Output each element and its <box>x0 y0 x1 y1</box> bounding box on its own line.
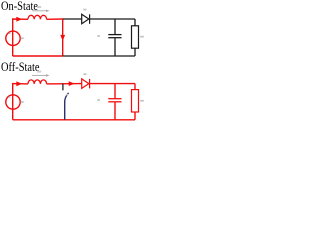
wire capacitor branch upper (black) <box>114 19 116 34</box>
inductor L1 (bottom) <box>28 80 47 84</box>
capacitor C1 <box>108 35 121 38</box>
wire inductor to diode (red) <box>47 83 82 85</box>
wire right branch lower (black) <box>134 48 136 56</box>
label Load (bottom resistor) <box>140 100 144 102</box>
wire inductor to node (red) <box>47 18 64 20</box>
switch closed S1 (red branch) <box>62 19 64 56</box>
title On-State <box>1 0 38 12</box>
label D (top diode) <box>83 9 86 11</box>
label S (bottom switch) <box>66 94 68 96</box>
current arrow i right (top) <box>16 17 22 22</box>
current arrow before diode (bottom) <box>69 81 75 86</box>
wire right branch upper (black) <box>134 19 136 26</box>
current arrow down (switch) <box>60 35 65 41</box>
label D (bottom diode) <box>83 73 86 75</box>
resistor Rload (top) <box>132 26 139 48</box>
wire bottom black (node to resistor) <box>63 55 135 57</box>
label plus of source V1 <box>9 32 11 34</box>
wire capacitor branch lower (black) <box>114 38 116 56</box>
wire node to diode anode (black) <box>63 18 82 20</box>
wire capacitor branch upper (red) <box>114 84 116 99</box>
switch open S1 blade (navy) <box>65 93 69 120</box>
label C (top cap) <box>97 35 100 37</box>
switch open S1 upper lead (black) <box>62 84 64 91</box>
label Load (top resistor) <box>140 36 144 38</box>
wire capacitor branch lower (red) <box>114 102 116 120</box>
voltage source V1 (bottom) <box>6 95 20 109</box>
label iL annotation (bottom) <box>32 74 47 76</box>
title Off-State <box>1 60 40 73</box>
wire top-left red (source to inductor, bottom) <box>13 84 28 120</box>
wire bottom red (return to source) <box>13 55 63 57</box>
wire right branch upper (red) <box>134 84 136 90</box>
diode D1 (bottom, red) <box>82 79 90 89</box>
label Vin (bottom) <box>21 101 24 103</box>
label plus of source V1 (bottom) <box>9 96 11 98</box>
label iL annotation (top) <box>32 10 47 12</box>
wire diode to right corner (black) <box>90 18 135 20</box>
current arrow right (bottom-left) <box>16 81 22 86</box>
wire right branch lower (red) <box>134 112 136 120</box>
wire diode to right corner (red) <box>90 83 135 85</box>
inductor L1 <box>28 15 47 19</box>
label Vin (top) <box>21 37 24 39</box>
diode D1 <box>82 14 90 23</box>
resistor Rload (bottom, red) <box>132 90 139 112</box>
capacitor C1 (bottom, red) <box>108 99 121 102</box>
wire top-left red (source to inductor) <box>13 19 28 56</box>
wire bottom red (full return) <box>13 119 135 121</box>
label C (bottom cap) <box>97 99 100 101</box>
voltage source V1 <box>6 31 20 45</box>
